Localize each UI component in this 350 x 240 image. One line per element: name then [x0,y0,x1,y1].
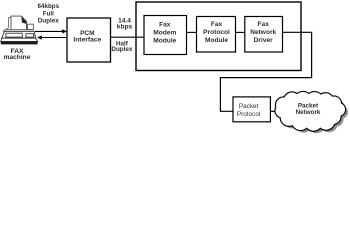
svg-text:Fax: Fax [159,22,171,29]
wire Modem to Protocol [187,31,197,33]
arrow PCM to fax (points left) [42,37,68,39]
fax machine: base dark bottom band [1,42,38,45]
svg-text:Protocol: Protocol [237,111,260,118]
svg-text:64kbps: 64kbps [37,3,59,10]
arrow fax to PCM (points right) [35,30,63,32]
svg-text:Driver: Driver [254,37,273,44]
wire Driver to Packet Protocol (right, down, left, down, right) [220,32,311,111]
wire Protocol to Driver [236,31,245,33]
Fax Network Driver box [245,17,283,53]
fax machine: paper sheet [11,16,27,30]
svg-text:Packet: Packet [239,103,259,110]
PCM Interface box [67,18,111,62]
cloud Packet Network [276,92,346,131]
svg-text:Duplex: Duplex [38,18,59,25]
svg-text:Protocol: Protocol [203,29,230,36]
svg-text:Module: Module [205,37,228,44]
fax machine: paper fold (dog-ear) [21,16,26,24]
svg-text:Full: Full [43,10,54,17]
fax machine: body front face [2,31,36,38]
fax machine: base [1,38,38,41]
fax machine: left paper tray [3,17,11,31]
cloud shadow [279,95,349,134]
svg-text:Module: Module [153,38,176,45]
fax machine: keypad rectangle [26,34,34,37]
svg-text:kbps: kbps [117,23,133,30]
fax machine: slot rectangle [6,33,22,37]
wire PCM to Fax Modem Module [111,36,145,38]
svg-text:Interface: Interface [73,37,101,44]
Fax Modem Module box [144,16,187,55]
svg-text:machine: machine [4,54,31,61]
fax machine: right post box [28,24,34,29]
svg-text:Duplex: Duplex [111,46,132,53]
fax machine: back shelf line [5,29,33,31]
cloud body white fill [276,92,346,131]
svg-text:Network: Network [296,109,321,116]
Fax Protocol Module box [197,17,236,53]
svg-text:Fax: Fax [258,21,270,28]
svg-text:Network: Network [250,29,276,36]
fax machine icon [1,16,38,44]
Packet Protocol box [233,97,270,122]
svg-text:Modem: Modem [153,30,176,37]
container box (fax software) [136,2,301,71]
wire Packet Protocol to cloud [270,110,280,112]
svg-text:Fax: Fax [211,21,223,28]
